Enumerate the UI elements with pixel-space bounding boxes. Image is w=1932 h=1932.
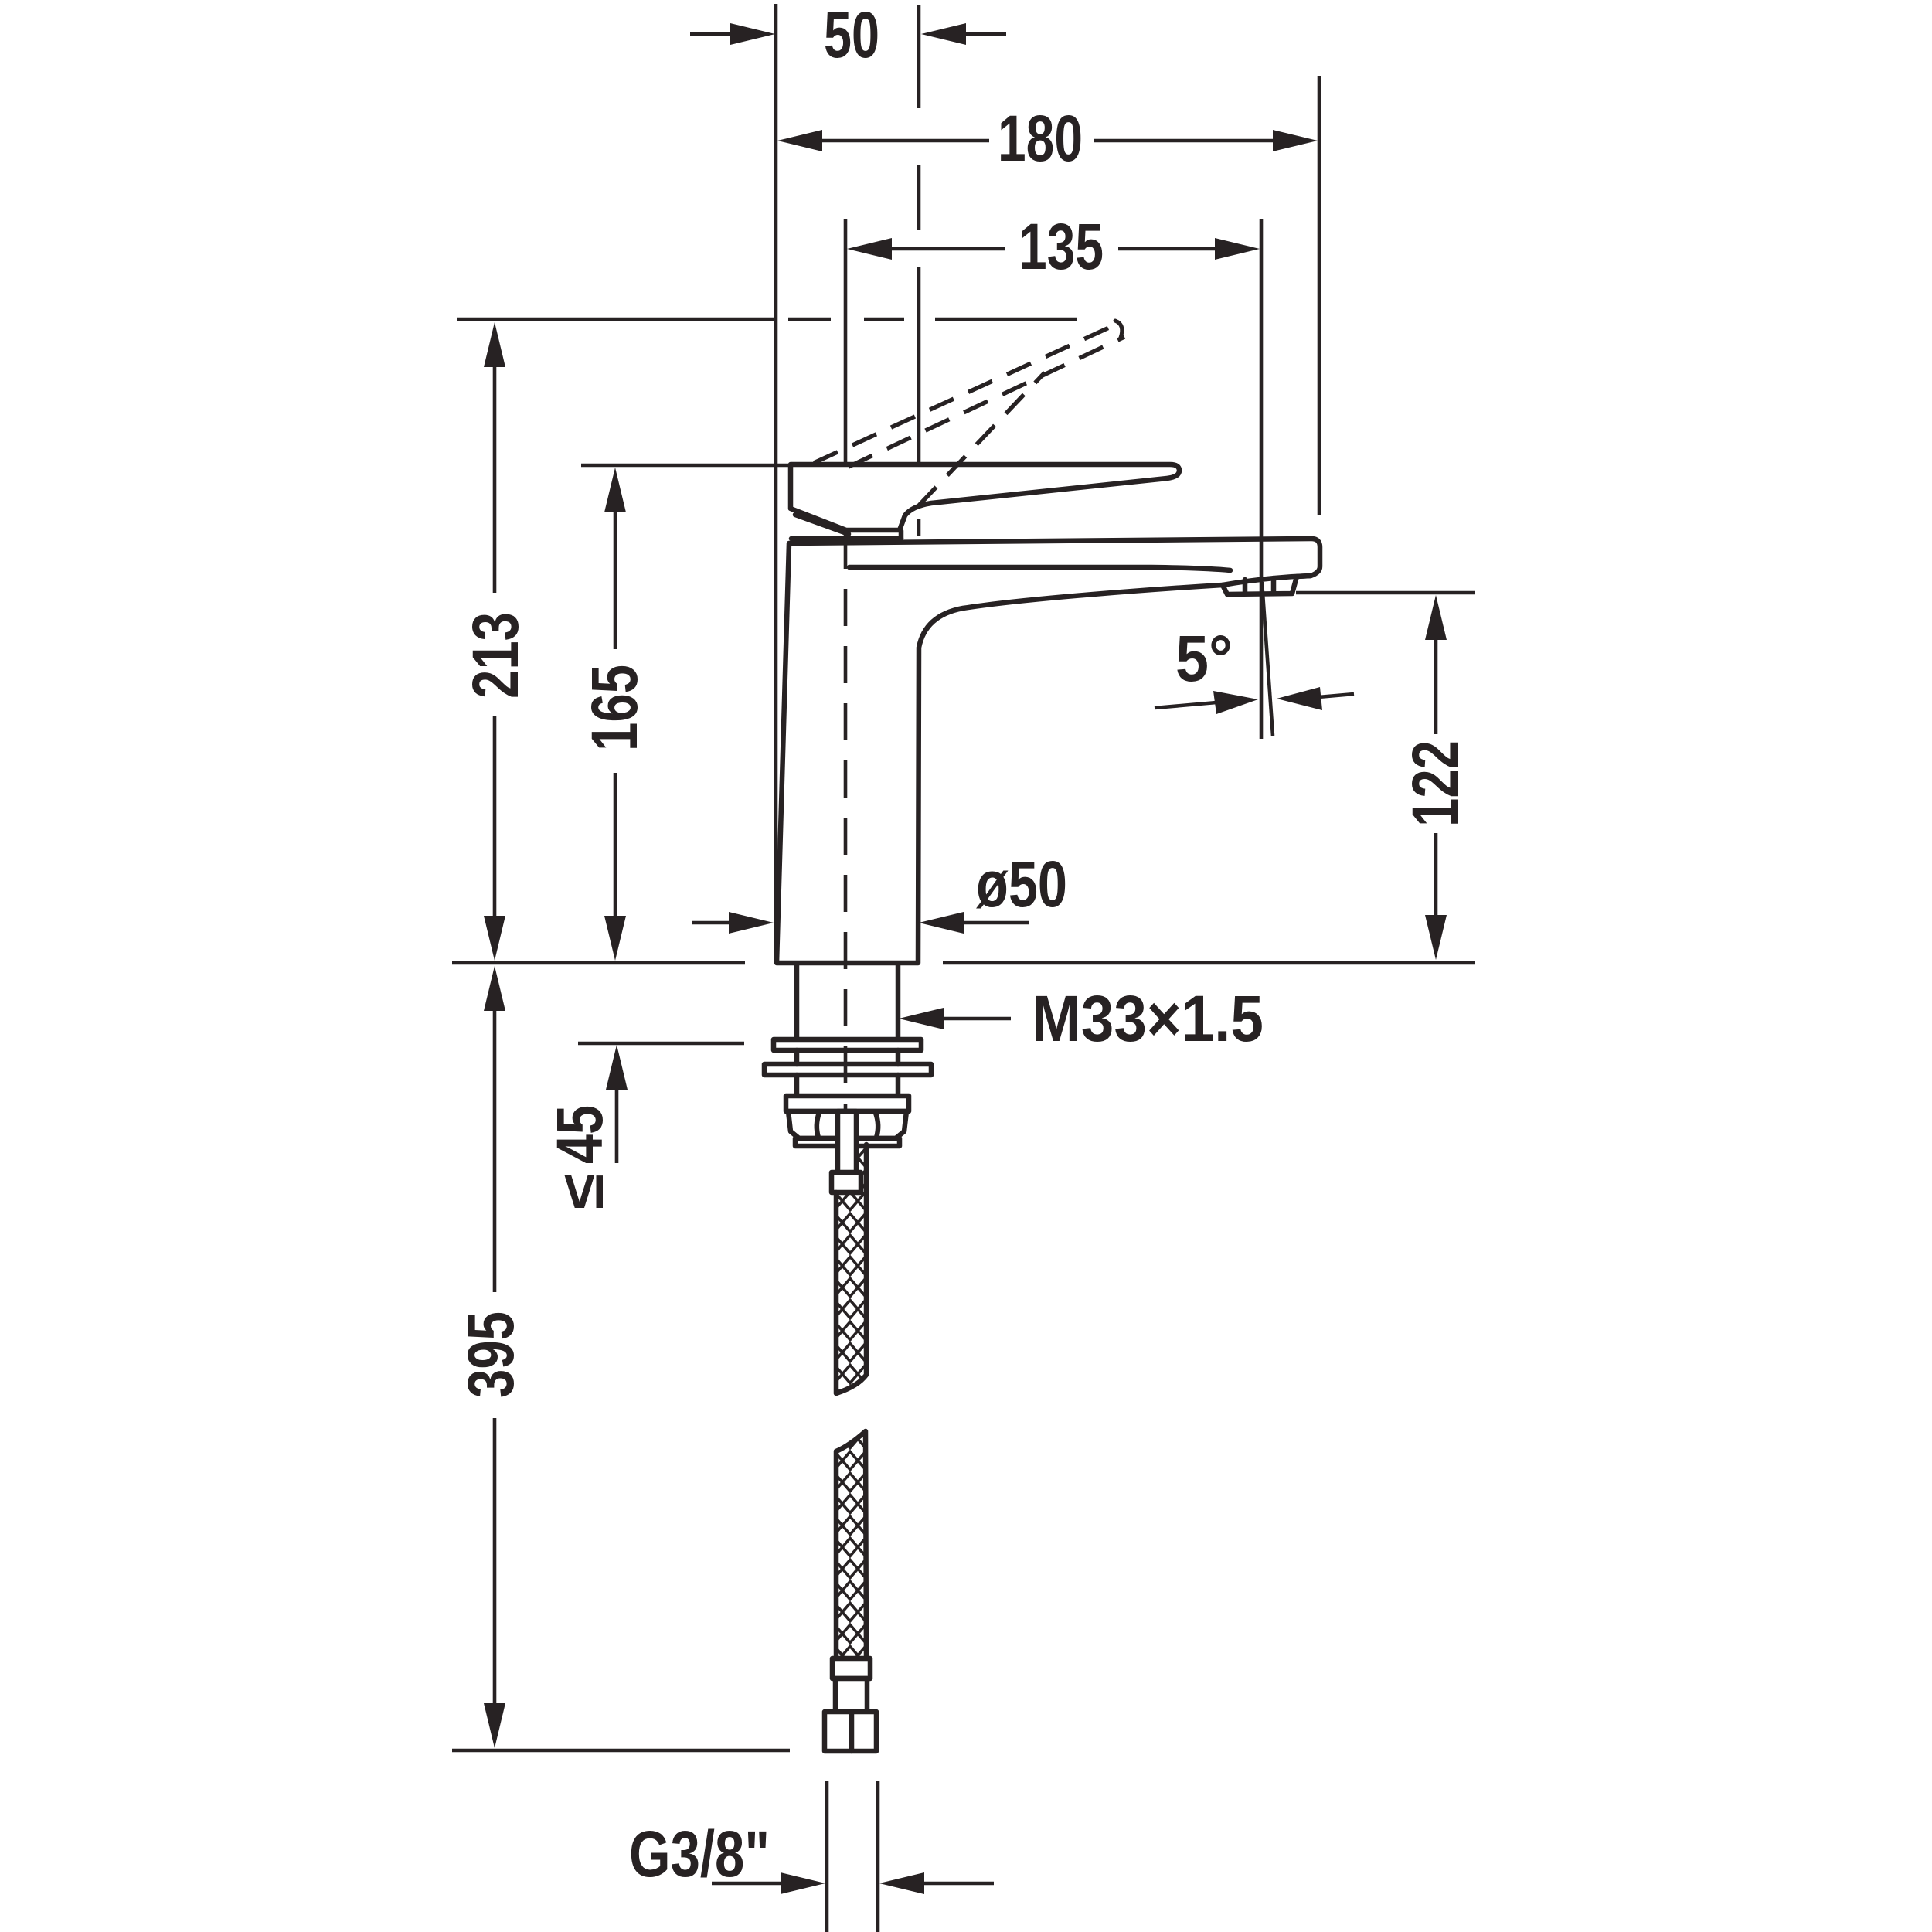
vertical ref C x=1707 [1318, 76, 1321, 515]
cartridge cover line [791, 536, 901, 542]
svg-text:5°: 5° [1175, 622, 1233, 695]
5 deg tilted line [1262, 582, 1273, 736]
dim G3/8 y=2437 [712, 1882, 782, 1886]
nut collar [795, 1138, 900, 1146]
bottom fitting box [832, 1658, 870, 1679]
mounting nut hex [788, 1111, 906, 1138]
svg-text:M33×1.5: M33×1.5 [1032, 982, 1264, 1055]
deck line y=1246 [452, 961, 745, 965]
supply stem [838, 1111, 856, 1175]
dashed centerline [844, 532, 848, 1109]
dim 122 x=1858 [1425, 595, 1447, 640]
washer 2 [764, 1064, 931, 1075]
spout tip ref y=767 [1296, 591, 1475, 595]
bottom ref y=2265 [452, 1749, 790, 1753]
dim o50 y=1194 [692, 921, 733, 925]
vertical ref D2 x=1632 (135 right) [1260, 219, 1264, 739]
dim <=45 x=798 [606, 1045, 628, 1090]
faucet body layer [764, 464, 1320, 1751]
lower hose [836, 1431, 866, 1658]
top ref line y=413 [457, 318, 776, 321]
dim 213 x=640 [484, 322, 505, 367]
svg-text:122: 122 [1399, 740, 1471, 827]
svg-text:180: 180 [998, 102, 1083, 175]
dim 180 y=182 [777, 130, 822, 151]
dim 165 x=796 [604, 468, 626, 512]
mounting nut flange [786, 1096, 909, 1111]
dim 395 x=640 [484, 966, 505, 1011]
bottom tube [835, 1679, 867, 1712]
shank between washers [794, 1050, 800, 1064]
construction lines layer [452, 4, 1475, 1932]
svg-text:135: 135 [1019, 210, 1104, 283]
lever handle blade [791, 464, 1179, 530]
dim 135 y=322 [847, 238, 892, 260]
aerator top lip [1223, 576, 1311, 585]
bottom hex nut [825, 1712, 876, 1751]
svg-text:G3/8": G3/8" [629, 1818, 770, 1890]
dim 50 [690, 32, 733, 36]
svg-text:ø50: ø50 [976, 848, 1067, 920]
threaded shank [794, 965, 800, 1039]
vertical ref D x=1094 (135 left) [844, 219, 848, 462]
hose sliver behind stem [856, 1145, 866, 1194]
svg-text:≤: ≤ [548, 1174, 616, 1209]
chamfer inner line [795, 515, 849, 534]
washer 1 [774, 1039, 921, 1050]
svg-text:45: 45 [543, 1105, 616, 1164]
svg-text:165: 165 [578, 665, 651, 751]
vertical ref B x=1189 [917, 5, 921, 108]
spout inner edge line [849, 567, 1230, 570]
svg-text:50: 50 [824, 0, 879, 71]
handle top ref y=602 [581, 464, 790, 468]
svg-text:395: 395 [454, 1311, 527, 1398]
dim M33 arrow y=1318 [942, 1017, 1011, 1021]
svg-text:213: 213 [459, 612, 532, 699]
vertical ref A x=1004 [774, 4, 778, 963]
G3/8 ref lines [825, 1781, 829, 1932]
dim 5deg arrows y~907 [1155, 702, 1216, 708]
spout + column body [777, 539, 1320, 963]
dashed lever open position [814, 323, 1119, 463]
ferrule [832, 1172, 861, 1192]
upper hose [836, 1192, 866, 1393]
overlay construction [814, 219, 1273, 1109]
washer ref y=1350 [578, 1042, 744, 1046]
aerator ticks [1243, 580, 1248, 594]
